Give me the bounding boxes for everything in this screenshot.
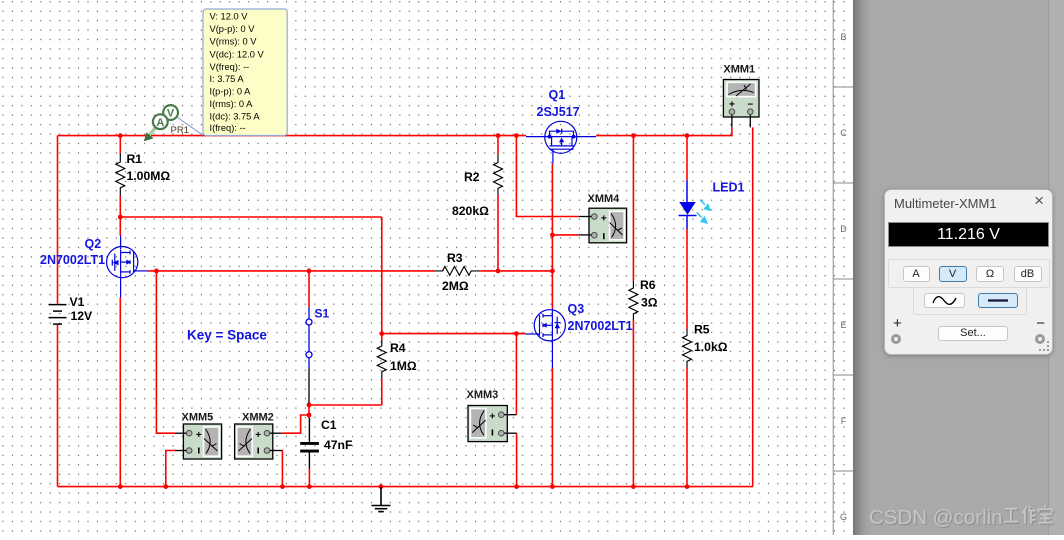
node R2 top — [496, 133, 501, 138]
switch S1 lower black lead — [308, 369, 310, 404]
svg-text:XMM4: XMM4 — [588, 193, 621, 205]
svg-text:1.0kΩ: 1.0kΩ — [694, 340, 728, 354]
node R6 top — [631, 133, 636, 138]
wire R1 top lead — [119, 136, 121, 154]
wire Q2 gate to R3 line — [148, 270, 435, 272]
wire XMM3 minus drop — [516, 433, 518, 486]
transistor Q2 — [107, 236, 148, 298]
wire Q2 source lower — [119, 298, 121, 487]
wire XMM4 plus riser — [516, 136, 578, 217]
wire XMM2 minus drop — [281, 451, 284, 487]
ground — [372, 487, 391, 512]
svg-text:I(rms): 0 A: I(rms): 0 A — [210, 99, 254, 109]
transistor Q3 — [526, 309, 566, 369]
multimeter icon XMM3 — [468, 406, 517, 442]
svg-text:XMM1: XMM1 — [723, 64, 755, 76]
svg-text:V: V — [167, 108, 175, 120]
wire XMM1 minus drop — [752, 127, 754, 486]
wire S1 bottom node — [308, 404, 310, 419]
svg-text:Q1: Q1 — [549, 88, 566, 102]
svg-text:R5: R5 — [694, 323, 710, 337]
svg-text:820kΩ: 820kΩ — [452, 204, 489, 218]
svg-text:PR1: PR1 — [171, 125, 189, 136]
svg-text:R4: R4 — [390, 341, 406, 355]
wire Q1 gate column — [551, 164, 553, 309]
svg-text:XMM5: XMM5 — [182, 412, 214, 424]
wire R6 column lower — [632, 320, 634, 486]
wire C1 bottom lead — [308, 469, 310, 487]
wire top rail left of Q1 — [58, 135, 527, 137]
capacitor C1 — [300, 418, 319, 469]
svg-text:R2: R2 — [464, 170, 480, 184]
svg-text:Key = Space: Key = Space — [187, 328, 267, 343]
node Q3 source rail — [550, 484, 555, 489]
node C1 rail — [307, 484, 312, 489]
node XMM2 plus — [307, 413, 312, 418]
node XMM5 tap — [154, 269, 159, 274]
resistor R1 — [116, 154, 125, 196]
node S1 tap — [307, 269, 312, 274]
svg-text:XMM3: XMM3 — [467, 389, 499, 401]
resistor R6 — [629, 281, 638, 320]
wire R2 top lead — [497, 136, 499, 154]
wire R3 right to Q1 gate column — [480, 270, 552, 272]
node XMM4 minus — [550, 233, 555, 238]
wire XMM5 plus drop — [156, 271, 175, 433]
probe tooltip — [203, 9, 287, 136]
svg-text:Q2: Q2 — [85, 237, 102, 251]
node Q3 gate XMM3 — [514, 331, 519, 336]
node R2 bottom — [496, 269, 501, 274]
resistor R5 — [683, 330, 692, 368]
svg-text:LED1: LED1 — [713, 181, 745, 195]
wire Q2 drain upper — [119, 217, 121, 236]
resistor R2 — [494, 154, 503, 195]
svg-text:Q3: Q3 — [568, 302, 585, 316]
svg-text:V: 12.0 V: V: 12.0 V — [210, 12, 249, 22]
wire R6 column upper — [632, 136, 634, 281]
svg-text:+: + — [601, 214, 607, 225]
node R6 bottom rail — [631, 484, 636, 489]
resistor R3 — [435, 267, 481, 276]
multimeter dialog XMM1 — [884, 189, 1053, 355]
multimeter icon XMM5 — [175, 424, 222, 459]
svg-text:V(rms): 0 V: V(rms): 0 V — [210, 37, 258, 47]
svg-text:V1: V1 — [70, 295, 85, 309]
svg-text:+: + — [255, 430, 261, 441]
wire XMM5 minus return — [166, 451, 175, 487]
wire R2 bottom lead — [497, 195, 499, 271]
wire LED column upper — [686, 136, 688, 181]
wire bottom rail — [58, 486, 753, 488]
svg-text:1.00MΩ: 1.00MΩ — [127, 169, 171, 183]
svg-text:R3: R3 — [447, 251, 463, 265]
probe PR1 — [144, 105, 203, 141]
svg-text:I(dc): 3.75 A: I(dc): 3.75 A — [210, 112, 261, 122]
svg-text:2N7002LT1: 2N7002LT1 — [40, 253, 105, 267]
node Q2 source rail — [118, 484, 123, 489]
svg-text:D: D — [840, 224, 847, 234]
svg-text:R1: R1 — [127, 152, 143, 166]
wire R1 bottom to node — [119, 196, 121, 218]
svg-text:C: C — [840, 128, 847, 138]
svg-text:I(p-p): 0 A: I(p-p): 0 A — [210, 87, 252, 97]
wire left rail lower (V1 bottom) — [57, 325, 59, 487]
svg-text:G: G — [840, 512, 847, 522]
wire R4 column upper — [381, 217, 383, 340]
wire LED to R5 — [686, 229, 688, 330]
multimeter icon XMM4 — [579, 208, 627, 243]
multimeter icon XMM2 — [235, 424, 282, 459]
wire left rail upper (V1 top) — [57, 136, 59, 304]
node XMM5 minus rail — [163, 484, 168, 489]
svg-text:S1: S1 — [315, 307, 330, 321]
svg-text:R6: R6 — [640, 278, 656, 292]
LED LED1 — [679, 180, 712, 229]
node LED top — [685, 133, 690, 138]
wire gate bus y217 — [120, 216, 382, 218]
node ground rail — [379, 484, 384, 489]
wire XMM3 plus riser — [515, 334, 517, 415]
svg-text:XMM2: XMM2 — [242, 412, 274, 424]
svg-text:2N7002LT1: 2N7002LT1 — [568, 319, 633, 333]
svg-text:C1: C1 — [321, 418, 337, 432]
svg-text:2SJ517: 2SJ517 — [537, 105, 580, 119]
wire R5 bottom — [686, 368, 688, 487]
svg-text:I: 3.75 A: I: 3.75 A — [210, 74, 245, 84]
svg-text:12V: 12V — [71, 309, 94, 323]
wire Q3 gate bus y333.6 — [382, 333, 526, 335]
battery V1 — [49, 305, 67, 325]
wire R4 column lower — [381, 379, 383, 406]
wire Q3 source drop — [551, 368, 553, 487]
wire node to R4 bottom — [309, 404, 382, 406]
node XMM4 riser top — [514, 133, 519, 138]
node S1 bottom — [307, 403, 312, 408]
svg-text:V(freq): --: V(freq): -- — [210, 62, 250, 72]
svg-text:V(dc): 12.0 V: V(dc): 12.0 V — [210, 49, 265, 59]
multimeter icon XMM1 — [723, 80, 759, 128]
node R4 top — [379, 331, 384, 336]
svg-text:47nF: 47nF — [324, 438, 352, 452]
svg-text:I(freq): --: I(freq): -- — [210, 123, 246, 133]
svg-text:1MΩ: 1MΩ — [390, 359, 417, 373]
svg-text:B: B — [840, 32, 846, 42]
svg-text:3Ω: 3Ω — [641, 296, 658, 310]
wire XMM4 minus stub — [552, 234, 578, 236]
wire XMM2 plus elbow — [282, 415, 309, 433]
svg-text:2MΩ: 2MΩ — [442, 279, 469, 293]
node XMM2 minus rail — [280, 484, 285, 489]
svg-text:V(p-p): 0 V: V(p-p): 0 V — [210, 24, 256, 34]
switch S1 — [306, 307, 312, 368]
svg-text:E: E — [840, 320, 846, 330]
wire S1 top feed — [308, 271, 310, 307]
node R5 bottom rail — [685, 484, 690, 489]
node XMM3 minus rail — [514, 484, 519, 489]
node R1 top — [118, 133, 123, 138]
node R1 bottom — [118, 215, 123, 220]
transistor Q1 — [526, 121, 596, 164]
svg-text:F: F — [841, 416, 847, 426]
resistor R4 — [377, 340, 386, 379]
svg-text:+: + — [489, 411, 495, 422]
wire top rail right of Q1 — [596, 128, 732, 136]
svg-text:A: A — [156, 117, 164, 129]
node Q1 gate R3 — [550, 269, 555, 274]
sheet border column — [833, 0, 853, 535]
svg-text:+: + — [196, 430, 202, 441]
